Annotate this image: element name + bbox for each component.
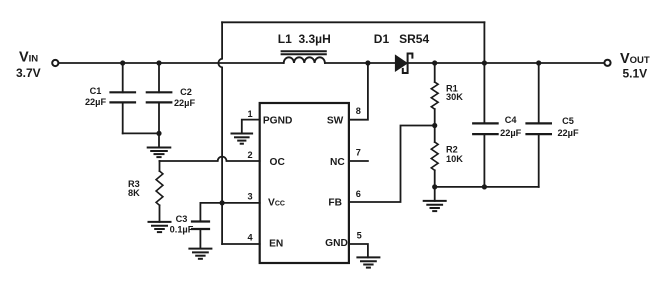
wire input rail (59, 62, 284, 64)
svg-text:SW: SW (327, 116, 344, 127)
IC U1 body (260, 103, 349, 263)
wire EN stub (222, 243, 260, 245)
node C2 rail junction (156, 60, 161, 65)
ground (C3) (189, 249, 211, 259)
VOUT terminal (604, 60, 610, 66)
svg-text:8: 8 (356, 106, 361, 116)
inductor L1 (282, 51, 326, 63)
wire diode to VOUT (408, 62, 604, 64)
wire Vcc line (pin3) (200, 202, 259, 204)
wire pin1 PGND stub (242, 120, 260, 134)
svg-text:D1 SR54: D1 SR54 (374, 32, 430, 46)
ground (R2) (424, 201, 446, 211)
wire NC (pin7) stub (349, 160, 368, 162)
node R1 top junction (432, 60, 437, 65)
wire to ground from C2 bottom tee (158, 133, 160, 147)
svg-text:3: 3 (247, 191, 252, 201)
svg-text:PGND: PGND (263, 116, 292, 127)
svg-text:5.1V: 5.1V (623, 67, 648, 81)
svg-text:C3: C3 (176, 214, 188, 224)
svg-text:5: 5 (357, 231, 362, 241)
node C2 bottom tee junction (156, 131, 161, 136)
ground (C1/C2) (148, 148, 171, 158)
svg-text:VIN: VIN (19, 50, 38, 66)
svg-text:VOUT: VOUT (620, 51, 650, 67)
diode D1 (schottky) (396, 54, 413, 74)
resistor R3 (156, 161, 163, 222)
svg-text:22µF: 22µF (500, 128, 522, 138)
svg-text:22µF: 22µF (557, 128, 579, 138)
node Vcc junction (220, 200, 225, 205)
wire R2 ground lead (434, 187, 436, 201)
svg-text:FB: FB (328, 197, 342, 208)
svg-text:OC: OC (270, 157, 286, 168)
svg-text:8K: 8K (128, 188, 140, 198)
node C4 bottom junction (482, 184, 487, 189)
node C1 rail junction (120, 60, 125, 65)
svg-text:10K: 10K (446, 154, 463, 164)
capacitor C5 (527, 63, 551, 187)
node C4 top junction (482, 60, 487, 65)
wire right vertical from top loop to output rail (483, 22, 485, 63)
svg-text:C1: C1 (90, 86, 102, 96)
node C5 top junction (536, 60, 541, 65)
svg-text:4: 4 (247, 233, 253, 243)
capacitor C3 (192, 203, 209, 249)
svg-text:C4: C4 (505, 115, 518, 125)
svg-text:EN: EN (269, 239, 283, 250)
capacitor C2 (147, 63, 172, 133)
svg-text:22µF: 22µF (174, 98, 196, 108)
svg-text:6: 6 (356, 189, 361, 199)
svg-text:30K: 30K (446, 92, 463, 102)
svg-text:VCC: VCC (268, 197, 285, 208)
wire long left vertical (Vcc/EN feed) with hop over input rail (218, 22, 222, 244)
svg-text:1: 1 (247, 109, 252, 119)
resistor R1 (431, 63, 438, 126)
capacitor C4 (473, 63, 497, 187)
svg-text:GND: GND (325, 238, 348, 249)
wire bottom line R2 to C5 (435, 186, 539, 188)
node FB divider junction (432, 123, 437, 128)
wire C1 bottom to C2 bottom (123, 132, 159, 134)
wire GND (pin5) stub to ground (349, 244, 368, 257)
wire top loop (222, 21, 484, 23)
capacitor C1 (111, 63, 136, 133)
svg-text:NC: NC (330, 157, 345, 168)
svg-text:C2: C2 (180, 87, 192, 97)
ground (PGND pin1) (232, 134, 253, 144)
ground (R3) (149, 222, 171, 232)
svg-text:2: 2 (247, 150, 252, 160)
svg-text:22µF: 22µF (85, 97, 107, 107)
svg-text:3.7V: 3.7V (16, 66, 41, 80)
wire FB (pin6) link to divider (349, 126, 435, 203)
svg-text:0.1µF: 0.1µF (170, 225, 194, 235)
wire inductor to diode (325, 62, 396, 64)
node SW-rail junction (365, 60, 370, 65)
svg-text:7: 7 (356, 147, 361, 157)
VIN terminal (52, 60, 58, 66)
ground (GND pin5) (357, 257, 379, 267)
resistor R2 (431, 126, 438, 187)
wire SW (pin8) stub and vertical to rail (349, 63, 368, 120)
svg-text:L1 3.3µH: L1 3.3µH (278, 32, 331, 46)
node R2 bottom junction (432, 184, 437, 189)
wire OC line (pin2) with hop over vertical (160, 157, 260, 161)
svg-text:C5: C5 (562, 116, 574, 126)
